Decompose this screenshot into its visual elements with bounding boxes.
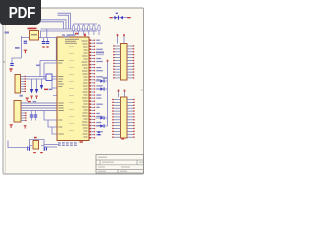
connector J1 [15,75,21,94]
pin 1 of J1 [21,76,27,77]
net label X_TAL [96,52,104,55]
pin 2 of J2 wire to U1 [21,105,57,107]
resistor R4 [88,24,90,35]
wire step into U1 [52,81,57,89]
wire top loop inner [58,15,69,29]
wire output drop [55,38,58,61]
diode D4 [35,89,38,94]
diode D9 [40,85,43,90]
pin 8 of J2 [21,120,27,121]
wire long bottom net [8,141,30,148]
wire bus drop to regulator output b [40,31,42,38]
wire riser P1 a [117,34,119,43]
ground at C2 [42,46,44,47]
wire diode column [107,62,109,127]
pin 4 of J2 wire to U1 [21,110,57,112]
pin 6 of J1 [21,88,27,89]
U1 top inner text [65,39,79,44]
wire top loop outer [58,13,71,29]
net label left of U1 [36,65,40,67]
wire regulator output [39,37,58,39]
wire drop to D3 [31,79,33,89]
regulator U2 inner text [31,34,37,35]
wire step 2 [48,120,57,127]
pin 6 of J2 [21,115,27,116]
value label U2 designator [28,28,37,30]
U1 left inner pin names [58,60,64,135]
wire step 1 [44,111,57,121]
wire crystal loop [30,140,45,152]
wire Y1 to U1 xtal1 [44,144,59,146]
resistor R2 [78,24,80,35]
net label on J2 wire red [28,101,31,102]
capacitor C3 [46,38,49,44]
designator Y1 [34,137,37,139]
resistor R6 [98,24,100,35]
wire U1 pin to net lower [44,63,57,79]
diode D6 [96,87,108,91]
ground at Y1 [33,152,43,153]
power flag +5V at C1 [24,50,27,54]
wire to J1 [12,58,22,63]
U1 right inner pin names [82,41,88,138]
net label VIN [15,47,20,49]
pin 3 of J2 wire to U1 [21,107,57,109]
wire bus row B [40,30,97,32]
capacitor C2 [42,38,45,44]
ground below J2 [10,124,13,128]
sheet inner border left [4,8,6,174]
schematic sheet background [3,8,144,174]
diode D1 [114,16,117,20]
capacitor C8 [44,147,47,151]
capacitor C5 [30,111,33,121]
pin 1 mark below P2 [121,138,124,139]
diode D2 [118,16,123,20]
wire resistor-row top rail [74,23,98,25]
power flag at J1 [9,68,12,72]
net labels above U1 [62,34,86,38]
wire bus J1-U1 lower [26,78,58,80]
wire drop to D9 [41,79,43,85]
connector J2 [14,101,21,123]
pin 1 of J2 wire to U1 [21,102,57,104]
ground at D4 [35,96,37,99]
pin 7 of J1 [21,91,27,92]
wire stub into U1 pin [53,95,57,97]
net label on J2 wire blue [33,101,36,102]
wire Y1 to U1 xtal2 [44,146,57,148]
wire drop to D4 [36,79,38,89]
resistor R1 [72,24,74,35]
pin 5 of J2 [21,112,27,113]
wire U1 pin to net upper [40,61,57,77]
wire bus row A [41,28,98,30]
diode D5 [96,79,108,83]
P2 left pins [112,99,120,138]
pin stub left of D1 [110,17,113,18]
connector P1 [121,44,128,81]
diode D8 [96,124,108,128]
resistor R3 [83,24,85,35]
wire ESD chain [110,17,131,19]
capacitor C1 [24,41,27,44]
diode D7 [96,116,108,120]
P1 right pins [127,45,134,78]
diode D3 [30,89,33,94]
U1 center text [69,46,74,131]
resistor R5 [93,24,95,35]
power flag above J2 [26,98,29,102]
zone tick right border [140,89,143,91]
P1 left pins [113,45,120,78]
pin dot below U1 [80,141,83,142]
connector P2 [121,97,128,138]
wire regulator input [22,36,30,58]
pin 4 of J1 [21,83,27,84]
net label above D1 [116,13,118,14]
ground at D3 [30,96,32,99]
net label at J1 [20,95,23,97]
pin dot above diode column [107,60,109,62]
wire step 3 [52,127,57,134]
ground at C3 [46,46,48,47]
wire VCC rail upper [36,20,66,29]
pin 3 of J1 [21,81,27,82]
ferrite bead FB1 [46,74,52,81]
wire riser P1 b [123,34,125,43]
capacitor C6 [34,111,37,121]
pin 5 of J1 [21,86,27,87]
IC U1 [57,37,89,141]
net label 5V [5,32,10,34]
capacitor C4 [10,63,13,66]
pin 7 of J2 [21,117,27,118]
P2 right pins [127,99,135,138]
wire bus J1-U1 upper [26,76,58,78]
capacitor C7 [27,147,30,151]
wire riser P2 a [118,90,120,97]
net label right of U1 bottom [98,132,100,136]
title block table [96,155,144,174]
title block text [98,157,143,172]
pin label below resistor row [75,33,78,35]
net label at diode column [103,77,107,79]
regulator U2 [30,31,39,41]
value labels near D3 D4 [44,89,53,91]
pin 2 of J1 [21,78,27,79]
wire VCC rail lower [36,22,64,29]
zone label left border [3,61,5,63]
PDF badge overlay [0,0,41,25]
ground at caps cluster [24,125,27,128]
crystal Y1 [33,141,39,150]
wire bus drop to regulator output a [46,29,48,38]
pin stub right of D2 [127,17,130,18]
wire riser P2 b [124,90,126,97]
net labels below U1 [58,142,77,146]
U1 right pins [89,39,103,138]
